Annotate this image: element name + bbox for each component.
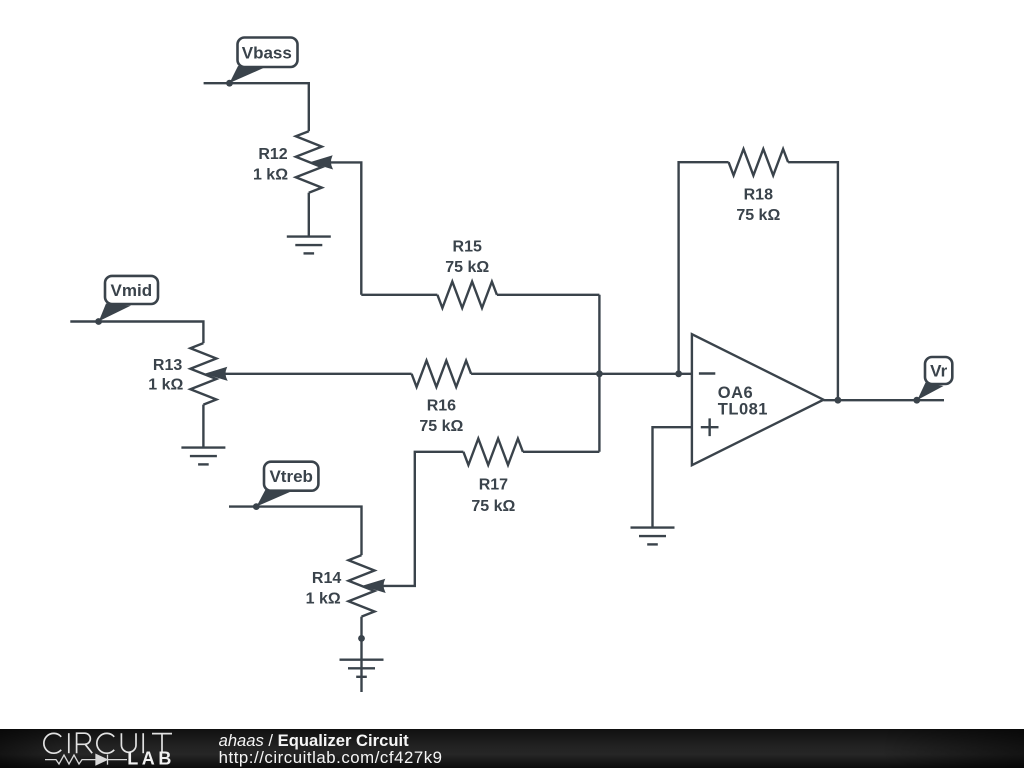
- net label Vbass: [230, 38, 298, 84]
- resistor R18: [729, 149, 789, 175]
- label R12 value: [253, 146, 288, 184]
- svg-text:R16: R16: [427, 398, 456, 415]
- wiper arrow R12: [311, 156, 332, 169]
- svg-text:Vtreb: Vtreb: [269, 467, 312, 486]
- footer bar: [0, 729, 1024, 768]
- wire: [598, 295, 600, 452]
- svg-text:R12: R12: [258, 146, 287, 163]
- svg-text:1 kΩ: 1 kΩ: [148, 377, 183, 394]
- resistor R17: [463, 439, 523, 465]
- wire: [471, 373, 692, 375]
- svg-text:TL081: TL081: [718, 400, 768, 418]
- svg-text:OA6: OA6: [718, 384, 753, 402]
- svg-text:Vbass: Vbass: [242, 43, 292, 62]
- wire: [679, 162, 729, 374]
- node Vr junction: [913, 397, 920, 404]
- label OA6 TL081: [718, 384, 768, 419]
- wire: [383, 452, 464, 586]
- ground: [181, 448, 225, 465]
- svg-text:1 kΩ: 1 kΩ: [253, 166, 288, 183]
- net label Vtreb: [257, 462, 319, 507]
- wiper arrow R14: [364, 580, 385, 593]
- wire: [361, 294, 437, 296]
- svg-text:R17: R17: [479, 477, 508, 494]
- wire: [225, 373, 412, 375]
- label R17 value: [471, 477, 515, 515]
- node at op-amp inverting input: [675, 370, 682, 377]
- svg-text:R13: R13: [153, 357, 182, 374]
- logo resistor-diode glyph: [45, 755, 127, 765]
- wire: [824, 399, 945, 401]
- label R18 value: [736, 187, 780, 225]
- wire: [204, 83, 309, 131]
- potentiometer R13: [190, 343, 216, 405]
- node Vtreb junction: [253, 503, 260, 510]
- wiper arrow R13: [206, 368, 227, 381]
- svg-text:http://circuitlab.com/cf427k9: http://circuitlab.com/cf427k9: [219, 748, 443, 767]
- resistor R15: [437, 282, 497, 308]
- svg-text:R14: R14: [312, 570, 341, 587]
- net label Vmid: [99, 276, 158, 321]
- wire: [330, 162, 362, 294]
- wire: [229, 507, 362, 555]
- svg-text:Vmid: Vmid: [111, 281, 153, 300]
- svg-text:1 kΩ: 1 kΩ: [306, 590, 341, 607]
- svg-text:75 kΩ: 75 kΩ: [471, 498, 515, 515]
- wire: [497, 294, 600, 296]
- wire: [788, 162, 838, 400]
- svg-text:75 kΩ: 75 kΩ: [736, 207, 780, 224]
- op-amp minus input symbol: [699, 372, 715, 374]
- svg-text:R18: R18: [744, 187, 773, 204]
- node Vbass junction: [226, 80, 233, 87]
- svg-text:LAB: LAB: [127, 749, 175, 768]
- node Vmid junction: [95, 318, 102, 325]
- ground: [287, 237, 331, 254]
- ground: [340, 660, 384, 677]
- wire: [70, 322, 203, 344]
- CircuitLab logo CIRCUIT: [44, 733, 172, 753]
- label R14 value: [306, 570, 342, 607]
- label R15 value: [445, 238, 489, 275]
- label R13 value: [148, 357, 183, 394]
- net label Vr: [917, 357, 952, 400]
- wire: [653, 427, 692, 527]
- wire: [202, 405, 204, 448]
- potentiometer R14: [349, 555, 375, 617]
- resistor R16: [412, 361, 472, 387]
- wire: [360, 617, 362, 692]
- node at op-amp output: [835, 397, 842, 404]
- svg-text:R15: R15: [453, 238, 482, 255]
- node below R14: [358, 635, 365, 642]
- svg-text:75 kΩ: 75 kΩ: [445, 259, 489, 276]
- potentiometer R12: [296, 131, 322, 193]
- ground: [631, 528, 675, 545]
- label R16 value: [419, 398, 463, 436]
- wire: [523, 451, 600, 453]
- op-amp plus input symbol: [701, 418, 719, 436]
- node at R15/R16 junction: [596, 370, 603, 377]
- op-amp OA6: [692, 334, 824, 465]
- svg-text:75 kΩ: 75 kΩ: [419, 418, 463, 435]
- wire: [308, 193, 310, 237]
- svg-text:Vr: Vr: [930, 362, 947, 381]
